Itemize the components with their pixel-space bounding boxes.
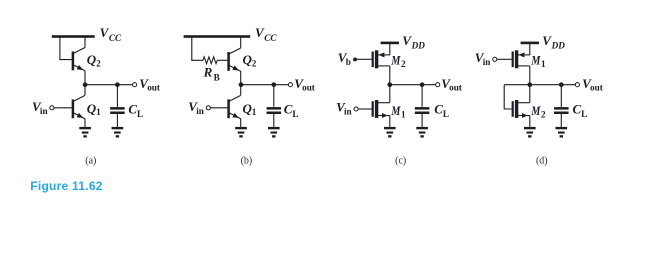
svg-text:1: 1 [252,107,257,117]
ground below Q1 (b) [235,127,247,138]
wire output row (a) [85,84,133,86]
wire Vin to M1 gate (d) [497,58,512,60]
svg-text:M: M [531,103,541,118]
ground below CL (a) [112,127,124,138]
node capacitor tap (a) [115,82,120,87]
wire Q1 emitter to ground (a) [84,119,86,127]
capacitor CL (b) [267,107,282,114]
svg-text:L: L [443,109,449,119]
transistor M1 (d) [512,50,530,68]
wire feedback to M2 gate (d) [504,85,511,109]
label RB (b) [203,65,220,83]
label Vout (a) [139,76,161,93]
ground below M2 (d) [524,127,536,138]
svg-text:in: in [196,106,204,116]
label CL (b) [284,102,299,120]
wire output row (c) [390,84,436,86]
node output junction (b) [239,82,244,87]
terminal Vin (b) [206,106,210,110]
label Q2 (a) [87,52,101,68]
wire M2 source to VDD (c) [389,44,391,55]
ground below M1 (c) [384,127,396,138]
label Vout (c) [441,76,463,93]
svg-text:CC: CC [264,33,277,43]
label VDD (d) [542,33,565,51]
wire Vin to Q1 base (b) [210,107,227,109]
node output junction (d) [527,82,532,87]
svg-text:1: 1 [541,59,546,69]
wire M2 drain to output node (d) [529,85,531,103]
wire Vb to M2 gate (c) [356,58,371,60]
svg-text:L: L [137,109,143,119]
wire Q1 collector to output node (b) [240,85,242,96]
wire output row (d) [504,84,575,86]
wire output node to capacitor (b) [273,85,275,107]
transistor Q1 (b) [227,95,240,118]
svg-text:(c): (c) [395,155,406,166]
wire Q1 emitter to ground (b) [240,119,242,127]
label Q1 (a) [87,101,101,117]
label VCC (a) [100,25,122,43]
svg-text:out: out [302,83,316,93]
capacitor CL (a) [110,107,125,114]
svg-text:M: M [531,53,541,68]
svg-text:B: B [214,72,220,82]
svg-text:out: out [449,83,463,93]
wire output node to capacitor (d) [560,85,562,107]
terminal Vout (d) [575,83,579,87]
wire output node to capacitor (c) [421,85,423,107]
svg-text:DD: DD [551,41,566,51]
wire output node to capacitor (a) [116,85,118,107]
svg-text:L: L [581,109,587,119]
ground below CL (c) [416,127,428,138]
label Vin (b) [188,99,204,116]
svg-text:2: 2 [401,59,406,69]
svg-text:1: 1 [401,109,406,119]
svg-text:1: 1 [96,107,101,117]
label M1 (d) [531,53,546,69]
label CL (a) [128,102,143,120]
resistor RB (b) [203,57,217,64]
terminal Vin (a) [50,106,54,110]
power rail VCC (b) [184,35,251,38]
svg-text:L: L [292,109,298,119]
wire M2 source to ground (d) [529,116,531,127]
label CL (c) [434,102,449,120]
label Vout (b) [294,76,316,93]
wire M1 source to ground (c) [389,116,391,127]
svg-text:2: 2 [252,59,257,69]
svg-text:out: out [590,83,604,93]
power symbol VDD (d) [521,42,539,45]
svg-text:b: b [346,57,351,67]
wire capacitor to ground (b) [273,114,275,127]
label M2 (d) [531,103,546,119]
wire Q2 collector to rail (b) [240,38,242,49]
svg-text:2: 2 [541,109,546,119]
wire output row (b) [241,84,289,86]
wire Q2 emitter to output node (b) [240,71,242,85]
terminal Vin (d) [493,57,497,61]
ground below CL (d) [556,127,568,138]
power symbol VDD (c) [381,42,399,45]
label Q1 (b) [243,101,257,117]
node capacitor tap (b) [271,82,276,87]
svg-text:(a): (a) [85,155,96,166]
label Vout (d) [582,76,604,93]
ground below Q1 (a) [79,127,91,138]
svg-text:in: in [483,57,491,67]
svg-text:M: M [391,53,401,68]
label VCC (b) [255,25,277,43]
terminal Vout (b) [288,83,292,87]
terminal Vout (a) [133,83,137,87]
label M1 (c) [391,103,406,119]
wire resistor to Q2 base (b) [217,59,227,61]
transistor M2 (c) [372,50,390,68]
wire M2 drain to output node (c) [389,66,391,85]
wire M1 drain to output node (c) [389,85,391,103]
wire capacitor to ground (d) [560,114,562,127]
svg-text:in: in [344,106,352,116]
wire M1 source to VDD (d) [529,44,531,55]
label VDD (c) [402,33,425,51]
svg-text:(d): (d) [536,155,548,166]
power rail VCC (a) [52,35,95,38]
svg-text:out: out [147,83,161,93]
label Vin (d) [475,50,491,67]
wire Vin to Q1 base (a) [54,107,72,109]
capacitor CL (c) [415,107,430,114]
transistor M1 (c) [372,100,390,118]
wire Q1 collector to output node (a) [84,85,86,96]
label M2 (c) [391,53,406,69]
ground below CL (b) [268,127,280,138]
node output junction (a) [83,82,88,87]
wire Vin to M1 gate (c) [358,108,372,110]
label CL (d) [573,102,588,120]
terminal Vb bullet (c) [353,57,357,61]
svg-text:2: 2 [96,58,101,68]
wire capacitor to ground (a) [116,114,118,127]
transistor Q2 (a) [72,48,85,71]
label Vin (a) [32,99,48,116]
svg-text:R: R [203,65,213,80]
node capacitor tap (d) [559,82,564,87]
wire M1 drain to output node (d) [529,66,531,85]
svg-text:CC: CC [109,33,122,43]
node capacitor tap (c) [420,82,425,87]
wire base of Q2 to VCC rail (a) [60,38,72,60]
wire capacitor to ground (c) [421,114,423,127]
wire rail to resistor RB (b) [192,38,203,61]
capacitor CL (d) [554,107,569,114]
wire Q2 emitter to output node (a) [84,71,86,85]
label Vb (c) [338,50,351,67]
label Q2 (b) [243,52,257,68]
node output junction (c) [387,82,392,87]
label Vin (c) [336,100,352,117]
svg-text:Figure 11.62: Figure 11.62 [30,179,102,193]
svg-text:DD: DD [411,41,426,51]
terminal Vout (c) [436,83,440,87]
svg-text:(b): (b) [241,155,253,166]
transistor Q2 (b) [227,48,240,71]
wire Q2 collector to rail (a) [84,38,86,48]
transistor M2 (d) [512,100,530,118]
svg-text:M: M [391,103,401,118]
transistor Q1 (a) [72,95,85,118]
terminal Vin (c) [354,107,358,111]
svg-text:in: in [40,106,48,116]
